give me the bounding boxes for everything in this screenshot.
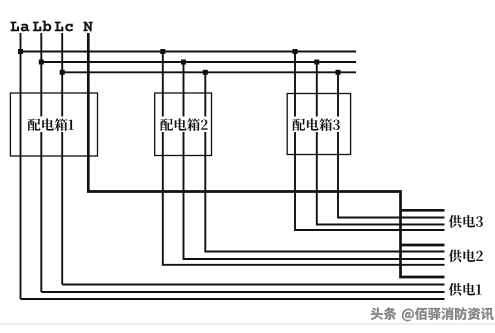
wire La bus <box>21 51 357 53</box>
wire box1 phase Lb horizontal to 供电1 <box>41 291 444 293</box>
net label 供电3 <box>449 215 483 228</box>
junction Lb bus / box3 tap <box>314 60 319 65</box>
wire N branch to 供电2 <box>401 244 445 247</box>
junction Lc bus / box3 tap <box>336 70 341 75</box>
wire Lb feeder vertical <box>40 33 42 292</box>
net label 供电1 <box>449 283 482 296</box>
faint scan artifact line <box>0 323 495 325</box>
text mask box1 label <box>26 117 79 133</box>
text mask box2 label <box>158 117 211 133</box>
watermark 头条@佰驿消防资讯 <box>371 307 495 322</box>
junction La bus / box2 tap <box>160 49 165 54</box>
junction La bus / feeder <box>18 49 23 54</box>
junction La bus / box3 tap <box>293 49 298 54</box>
junction Lb bus / box2 tap <box>181 60 186 65</box>
net label Lb <box>33 21 52 32</box>
net label Lc <box>55 22 73 32</box>
wire box2 phase Lc: down then right to 供电2 <box>205 72 444 251</box>
wire box1 phase Lc horizontal to 供电1 <box>62 284 444 286</box>
distribution box 配电箱2 <box>155 93 212 156</box>
distribution box 配电箱3 <box>287 94 350 155</box>
wire box1 phase La horizontal to 供电1 <box>21 298 445 300</box>
net label La <box>10 22 29 32</box>
wire box2 phase La: down then right to 供电2 <box>163 52 445 265</box>
wire Lc bus <box>62 71 356 73</box>
wire box3 phase La: down then right to 供电3 <box>295 52 445 231</box>
junction Lc bus / feeder <box>60 70 65 75</box>
wire box3 phase Lc: down then right to 供电3 <box>338 72 445 217</box>
net label 供电2 <box>449 250 483 263</box>
wire N feeder: vertical, right, down, right to 供电1 <box>88 33 444 277</box>
wire La feeder vertical <box>20 33 22 299</box>
wire Lc feeder vertical <box>61 33 63 285</box>
junction Lb bus / feeder <box>39 60 44 65</box>
wire box2 phase Lb: down then right to 供电2 <box>184 62 445 259</box>
junction Lc bus / box2 tap <box>203 70 208 75</box>
text mask box3 label <box>290 117 343 133</box>
wire N branch to 供电3 <box>401 209 445 212</box>
net label N <box>83 22 92 32</box>
wire Lb bus <box>41 61 356 63</box>
distribution box 配电箱1 <box>10 93 97 156</box>
wire box3 phase Lb: down then right to 供电3 <box>317 62 445 225</box>
